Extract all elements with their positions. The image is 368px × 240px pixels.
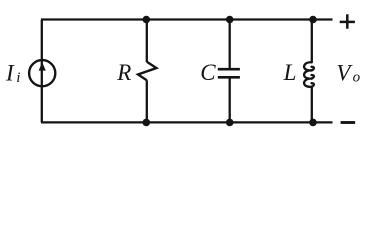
current source U1 circle [29,60,55,86]
resistor R zigzag [138,62,156,81]
svg-text:C: C [200,60,216,85]
svg-text:R: R [116,60,131,85]
plus terminal mark [340,14,355,28]
node dot inductor bottom [309,119,317,127]
node dot capacitor top [226,16,234,24]
svg-text:i: i [16,70,20,86]
node dot capacitor bottom [226,119,234,127]
bottom wire [41,121,333,123]
wire (left vertical through source) [41,20,43,123]
resistor R wire leads [146,20,148,63]
node dot resistor bottom [143,119,151,127]
node dot resistor top [143,16,151,24]
svg-text:I: I [5,60,15,85]
minus terminal mark [341,121,356,124]
top wire [41,18,333,20]
capacitor C plates [218,68,240,71]
node dot inductor top [309,16,317,24]
inductor L leads [311,20,313,63]
inductor L coil [304,62,314,87]
svg-text:L: L [283,60,297,85]
svg-text:o: o [353,69,361,85]
capacitor C leads [229,20,231,70]
svg-text:V: V [336,61,353,86]
